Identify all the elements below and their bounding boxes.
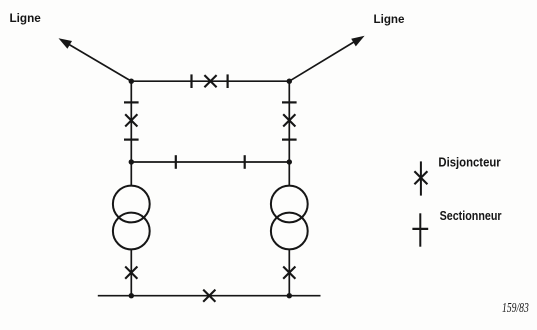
sectionneur right on middle busbar [244,155,246,169]
disjoncteur below right transformer [283,267,295,279]
disjoncteur on left feeder [125,114,137,126]
disjoncteur on bottom busbar [203,290,215,302]
node: bottom-left junction [129,293,134,298]
svg-text:Ligne: Ligne [374,12,405,26]
sectionneur lower on left feeder [124,139,139,141]
legend disjoncteur symbol (vertical wire with X) [414,161,427,195]
wire: middle bus down to left transformer [130,162,132,187]
wire: left feeder vertical (top bus to middle bus) [130,81,132,162]
node: middle-left junction [129,159,134,164]
disjoncteur on right feeder [283,114,295,126]
wire: bottom busbar [98,295,321,297]
node: top-right junction [287,79,292,84]
arrowhead of left line [59,38,73,49]
svg-text:Sectionneur: Sectionneur [440,208,502,223]
node: bottom-right junction [287,293,292,298]
svg-text:Ligne: Ligne [10,11,41,25]
arrowhead of right line [351,36,364,47]
wire: middle busbar [131,161,289,163]
wire: left outgoing line (arrow up-left) [64,42,131,82]
sectionneur upper on right feeder [282,101,297,103]
sectionneur upper on left feeder [124,101,139,103]
transformer T1 (left, two windings) [113,186,150,250]
transformer T2 (right, two windings) [271,186,308,250]
disjoncteur (bus coupler) on top busbar [204,75,216,87]
wire: left transformer down to bottom bus [130,249,132,296]
disjoncteur below left transformer [125,267,137,279]
wire: right transformer down to bottom bus [288,249,290,296]
sectionneur lower on right feeder [282,139,297,141]
svg-text:159/83: 159/83 [502,301,529,316]
legend sectionneur symbol (vertical wire with tick) [412,213,428,246]
sectionneur (left of coupler) on top busbar [190,74,192,88]
sectionneur (right of coupler) on top busbar [227,74,229,88]
svg-text:Disjoncteur: Disjoncteur [438,154,500,169]
node: middle-right junction [287,159,292,164]
wire: right feeder vertical (top bus to middle bus) [288,81,290,162]
sectionneur left on middle busbar [175,155,177,169]
wire: top busbar [131,80,289,82]
wire: middle bus down to right transformer [288,162,290,187]
node: top-left junction [129,79,134,84]
wire: right outgoing line (arrow up-right) [289,40,358,82]
